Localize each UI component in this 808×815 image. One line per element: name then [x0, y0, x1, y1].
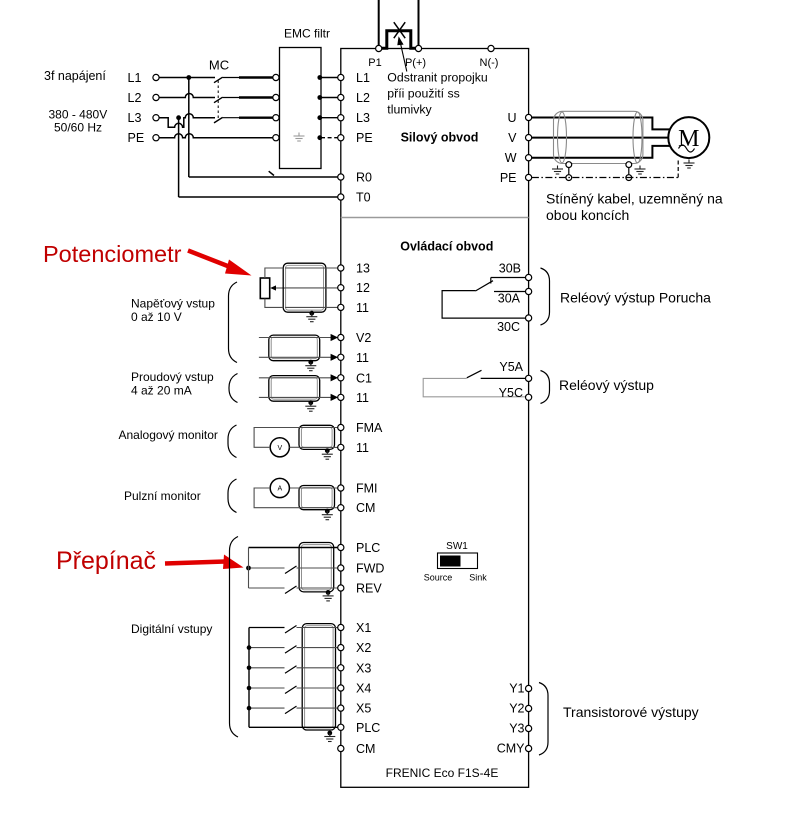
svg-text:X3: X3	[356, 661, 371, 675]
inverter terminal L1	[338, 74, 344, 80]
motor earth symbol	[684, 160, 695, 169]
svg-text:CM: CM	[356, 742, 375, 756]
separator line power/control	[341, 217, 529, 219]
svg-text:P1: P1	[368, 57, 381, 69]
output terminal W	[526, 155, 532, 161]
EMC filter ground symbol	[294, 133, 305, 142]
terminal Y5C	[526, 394, 532, 400]
terminal 30B	[526, 274, 532, 280]
svg-text:Y2: Y2	[509, 702, 524, 716]
filter input terminal L2	[273, 94, 279, 100]
svg-text:11: 11	[356, 301, 369, 315]
svg-text:11: 11	[356, 441, 369, 455]
shield cylinder FMA	[299, 425, 335, 449]
svg-text:Reléový výstup Porucha: Reléový výstup Porucha	[560, 290, 711, 306]
terminal 11	[338, 304, 344, 310]
inverter terminal R0	[338, 174, 344, 180]
svg-text:30A: 30A	[498, 292, 521, 306]
motor M	[668, 117, 709, 158]
svg-text:CM: CM	[356, 501, 375, 515]
svg-text:Y5A: Y5A	[499, 360, 523, 374]
terminal CMY	[526, 745, 532, 751]
svg-text:MC: MC	[209, 58, 229, 73]
svg-text:L1: L1	[128, 71, 142, 85]
potentiometer body	[260, 278, 269, 299]
svg-text:L3: L3	[356, 111, 370, 125]
arrow 11 below V2	[331, 354, 339, 361]
shield cylinder 13/12/11	[283, 263, 326, 312]
wire L1 input	[159, 77, 215, 79]
relay 30 contact	[491, 277, 527, 279]
junction dot filter L1	[317, 75, 322, 80]
wire V	[532, 137, 670, 139]
svg-text:380 - 480V: 380 - 480V	[49, 108, 108, 122]
meter loop FMA	[254, 428, 299, 448]
contactor MC pole L3	[214, 117, 223, 123]
contactor MC mechanical link dashed	[217, 81, 219, 119]
svg-text:0 až 10 V: 0 až 10 V	[131, 310, 182, 324]
svg-text:N(-): N(-)	[480, 57, 499, 69]
svg-text:REV: REV	[356, 582, 382, 596]
junction dot L3/T0	[176, 115, 181, 120]
terminal X4	[338, 685, 344, 691]
wire X1 with switch	[249, 627, 285, 629]
inverter terminal PE	[338, 135, 344, 141]
svg-text:X1: X1	[356, 621, 371, 635]
ground dot cable C1	[308, 400, 313, 405]
terminal Y2	[526, 705, 532, 711]
wire meter to cylinder FMA	[289, 446, 299, 448]
brace digital group big	[230, 537, 239, 738]
ground dot cable V2	[308, 360, 313, 365]
svg-text:R0: R0	[356, 171, 372, 185]
svg-text:SW1: SW1	[446, 541, 468, 552]
wire L2 MC to filter (bold)	[239, 96, 273, 98]
contactor MC pole L2	[214, 97, 223, 103]
svg-text:Pulzní monitor: Pulzní monitor	[124, 489, 201, 503]
inverter terminal L2	[338, 94, 344, 100]
svg-text:Analogový monitor: Analogový monitor	[119, 428, 218, 442]
shield ground right earth	[635, 166, 646, 175]
earth FWD cable	[323, 592, 334, 601]
arrow C1	[331, 374, 339, 381]
red arrow to junction	[165, 562, 225, 564]
svg-text:Digitální vstupy: Digitální vstupy	[131, 622, 212, 636]
wire T0 tap vertical	[178, 118, 180, 197]
inverter terminal L3	[338, 115, 344, 121]
svg-text:obou koncích: obou koncích	[546, 207, 629, 223]
wire R0 horizontal	[189, 176, 338, 178]
relay Y5 contact	[481, 377, 527, 379]
shield cylinder FMI	[299, 486, 335, 510]
ground dot digital	[327, 731, 332, 736]
svg-text:Y5C: Y5C	[499, 386, 523, 400]
terminal FWD	[338, 565, 344, 571]
svg-text:V: V	[277, 445, 282, 452]
wire to DC reactor from P1	[378, 0, 380, 49]
arrow to jumper	[400, 43, 407, 72]
wire L3 input with jog and hops	[159, 114, 215, 128]
brace voltage input group	[229, 282, 238, 363]
svg-text:PE: PE	[500, 171, 517, 185]
wire REV with switch	[249, 587, 285, 589]
svg-text:3f napájení: 3f napájení	[44, 69, 106, 83]
motor cable shield cylinder	[554, 111, 643, 163]
svg-text:V: V	[508, 131, 517, 145]
voltmeter	[270, 438, 289, 457]
wire 11	[285, 306, 338, 308]
svg-text:FMA: FMA	[356, 421, 383, 435]
wire to DC reactor from P(+)	[418, 0, 420, 49]
wire L3 MC to filter (bold)	[239, 116, 273, 118]
input terminal PE	[153, 135, 159, 141]
shield ground left clamp	[566, 162, 572, 168]
output terminal U	[526, 114, 532, 120]
shield ground right clamp	[626, 162, 632, 168]
shield cylinder C1/11	[269, 376, 320, 402]
terminal 11c	[338, 394, 344, 400]
svg-text:W: W	[505, 151, 517, 165]
svg-text:Proudový vstup: Proudový vstup	[131, 370, 214, 384]
svg-text:V2: V2	[356, 331, 371, 345]
svg-text:T0: T0	[356, 191, 371, 205]
input terminal L1	[153, 74, 159, 80]
left vertical PLC-REV	[248, 548, 250, 589]
svg-text:Odstranit propojku: Odstranit propojku	[387, 71, 488, 85]
wire FMA	[299, 427, 338, 429]
jumper P1-P(+)	[382, 31, 416, 49]
ground dot cable 13-11	[309, 311, 314, 316]
svg-text:50/60 Hz: 50/60 Hz	[54, 121, 102, 135]
svg-text:PLC: PLC	[356, 721, 380, 735]
svg-text:Sink: Sink	[469, 573, 487, 583]
terminal PLC	[338, 544, 344, 550]
svg-text:X2: X2	[356, 641, 371, 655]
svg-text:Transistorové výstupy: Transistorové výstupy	[563, 704, 699, 720]
ground dot FWD cable	[326, 590, 331, 595]
wire 11 below V2	[259, 356, 334, 358]
input terminal L3	[153, 115, 159, 121]
wire X4 with switch	[249, 687, 285, 689]
svg-text:Silový obvod: Silový obvod	[401, 131, 479, 145]
earth FMI	[322, 511, 333, 520]
arrow 11 below C1	[331, 394, 339, 401]
svg-text:13: 13	[356, 262, 370, 276]
shield cylinder PLC/FWD/REV	[299, 543, 334, 592]
svg-text:Přepínač: Přepínač	[56, 547, 156, 575]
terminal CM2	[338, 745, 344, 751]
junction dot filter L3	[317, 115, 322, 120]
junction dot L1/R0	[186, 75, 191, 80]
terminal C1	[338, 375, 344, 381]
svg-text:Napěťový vstup: Napěťový vstup	[131, 297, 215, 311]
wire PE dash-dot to motor ground	[532, 177, 678, 179]
svg-text:C1: C1	[356, 371, 372, 385]
earth cable V2	[305, 362, 316, 371]
svg-text:30C: 30C	[497, 320, 520, 334]
svg-text:A: A	[277, 486, 282, 493]
svg-text:Reléový výstup: Reléový výstup	[559, 377, 654, 393]
wire CM	[299, 507, 338, 509]
svg-text:FWD: FWD	[356, 562, 384, 576]
output terminal PE	[526, 174, 532, 180]
terminal Y1	[526, 685, 532, 691]
wire 12 wiper	[285, 287, 338, 289]
terminal 12	[338, 285, 344, 291]
wire 13	[285, 267, 338, 269]
terminal 30A	[526, 288, 532, 294]
wire PLC bottom	[249, 726, 338, 728]
earth digital	[324, 733, 335, 742]
red arrow to potentiometer	[188, 251, 234, 269]
arrow V2	[331, 334, 339, 341]
brace current input group	[229, 374, 238, 403]
svg-text:12: 12	[356, 281, 370, 295]
svg-text:tlumivky: tlumivky	[387, 103, 432, 117]
junction dot FWD	[246, 566, 251, 571]
svg-text:Y3: Y3	[509, 722, 524, 736]
digital shield box	[302, 624, 335, 730]
shield cylinder V2/11	[269, 335, 320, 361]
ground dot FMA	[325, 448, 330, 453]
terminal FMA	[338, 424, 344, 430]
terminal REV	[338, 585, 344, 591]
ammeter	[270, 478, 289, 497]
potentiometer wiper arrow	[276, 287, 285, 289]
svg-text:U: U	[507, 111, 516, 125]
terminal P1	[376, 45, 382, 51]
filter output wire L3	[321, 117, 338, 119]
svg-text:X5: X5	[356, 702, 371, 716]
wire X5 with switch	[249, 707, 285, 709]
earth cable C1	[305, 403, 316, 412]
terminal 13	[338, 265, 344, 271]
contactor MC pole L1	[214, 77, 223, 83]
wire 11 FMA	[299, 446, 338, 448]
junction dot filter L2	[317, 95, 322, 100]
EMC filter box	[280, 48, 322, 169]
terminal Y3	[526, 725, 532, 731]
brace analog monitor	[228, 425, 237, 458]
wire L2 input with hop	[159, 94, 215, 98]
svg-text:M: M	[678, 126, 699, 152]
brace pulse monitor	[228, 479, 237, 513]
svg-text:Y1: Y1	[509, 682, 524, 696]
filter input terminal L1	[273, 74, 279, 80]
svg-text:P(+): P(+)	[405, 57, 426, 69]
svg-text:Ovládací obvod: Ovládací obvod	[400, 240, 493, 254]
svg-text:FRENIC Eco F1S-4E: FRENIC Eco F1S-4E	[386, 766, 499, 780]
X mark on jumper	[394, 22, 405, 38]
filter output wire L2	[321, 97, 338, 99]
tick mark on R0 wire	[269, 171, 274, 175]
brace relay fault	[541, 268, 550, 325]
terminal X2	[338, 645, 344, 651]
svg-text:PE: PE	[356, 131, 373, 145]
terminal N(-)	[488, 45, 494, 51]
wire W	[532, 146, 670, 158]
svg-text:Source: Source	[424, 573, 453, 583]
terminal 11b	[338, 354, 344, 360]
brace transistor outputs	[539, 683, 548, 756]
earth cable 13-11	[306, 313, 317, 322]
wire U	[532, 118, 670, 130]
wire R0 tap vertical	[188, 78, 190, 178]
svg-text:L3: L3	[128, 111, 142, 125]
filter input terminal PE	[273, 135, 279, 141]
terminal X1	[338, 624, 344, 630]
wire FWD with switch	[251, 567, 285, 569]
svg-text:X4: X4	[356, 682, 371, 696]
terminal V2	[338, 334, 344, 340]
svg-text:L2: L2	[356, 91, 370, 105]
inverter main box FRENIC Eco	[341, 49, 529, 788]
wire C1	[259, 377, 334, 379]
svg-text:příi použití ss: příi použití ss	[387, 87, 459, 101]
output terminal V	[526, 135, 532, 141]
wire FMI	[289, 487, 337, 489]
brace relay output	[541, 371, 550, 404]
wire X2 with switch	[249, 647, 285, 649]
svg-text:L1: L1	[356, 71, 370, 85]
svg-text:30B: 30B	[499, 262, 521, 276]
filter output wire L1	[321, 77, 338, 79]
earth FMA	[322, 451, 333, 460]
filter input terminal L3	[273, 115, 279, 121]
terminal 11d	[338, 444, 344, 450]
wire X3 with switch	[249, 667, 285, 669]
meter loop FMI	[254, 488, 299, 508]
terminal X5	[338, 705, 344, 711]
wire PLC	[249, 547, 338, 549]
svg-text:4 až 20 mA: 4 až 20 mA	[131, 383, 192, 397]
svg-text:CMY: CMY	[497, 742, 525, 756]
wire PE input with two hops	[159, 134, 275, 138]
inverter terminal T0	[338, 194, 344, 200]
svg-text:Stíněný kabel, uzemněný na: Stíněný kabel, uzemněný na	[546, 190, 723, 206]
terminal PLC2	[338, 724, 344, 730]
wire 11 below C1	[259, 396, 334, 398]
svg-text:PLC: PLC	[356, 541, 380, 555]
svg-text:L2: L2	[128, 91, 142, 105]
wire V2	[259, 337, 334, 339]
terminal P(+)	[415, 45, 421, 51]
wire L1 MC to filter (bold)	[239, 76, 273, 78]
terminal FMI	[338, 485, 344, 491]
svg-text:PE: PE	[128, 131, 145, 145]
terminal 30C	[526, 315, 532, 321]
svg-text:FMI: FMI	[356, 482, 378, 496]
wire T0 horizontal	[179, 196, 338, 198]
svg-text:11: 11	[356, 351, 369, 365]
input terminal L2	[153, 94, 159, 100]
pot loop wires	[265, 268, 283, 307]
svg-text:Potenciometr: Potenciometr	[43, 241, 182, 267]
terminal X3	[338, 665, 344, 671]
ground dot FMI	[325, 509, 330, 514]
svg-text:EMC filtr: EMC filtr	[284, 27, 330, 41]
left vertical digital	[248, 628, 250, 728]
terminal Y5A	[526, 375, 532, 381]
svg-text:11: 11	[356, 391, 369, 405]
shield ground left earth	[552, 166, 563, 175]
terminal CM	[338, 505, 344, 511]
filter output wire PE dashed	[321, 137, 338, 139]
